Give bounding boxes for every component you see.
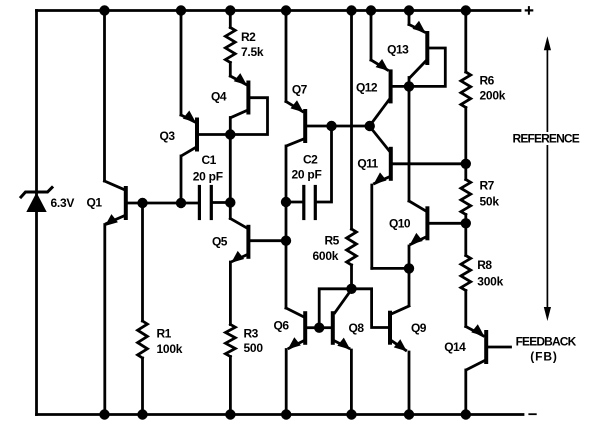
wire R5 bottom	[350, 265, 353, 289]
wire Q1 base node	[128, 202, 198, 205]
label R3 value	[244, 327, 264, 356]
label Q4	[211, 90, 227, 104]
wire Q1 collector	[105, 11, 125, 190]
wire Q11 emitter	[372, 172, 390, 268]
wire C2 right	[317, 126, 332, 202]
wire Q10 base	[429, 222, 465, 225]
wire Q10 collector	[409, 86, 425, 210]
label Q9	[411, 321, 427, 335]
wire R3 bottom	[229, 357, 232, 415]
node Q6 emitter ground	[281, 409, 291, 419]
resistor R3	[226, 325, 236, 357]
node Q5 base junction	[281, 236, 291, 246]
node R1 ground	[137, 409, 147, 419]
label FB	[530, 350, 558, 364]
wire R2 top	[229, 11, 232, 28]
label Q14	[444, 340, 466, 354]
wire C1 right	[213, 201, 230, 204]
wire Q3 collector	[181, 148, 196, 204]
transistor Q10	[425, 208, 429, 238]
svg-text:C1: C1	[202, 153, 217, 167]
wire Q6 emitter	[286, 337, 304, 414]
wire R7-R8	[464, 215, 467, 256]
label R8 value	[477, 258, 503, 288]
wire Q7 emitter	[286, 11, 303, 112]
svg-text:500: 500	[244, 341, 264, 355]
svg-text:C2: C2	[303, 153, 318, 167]
svg-text:(FB): (FB)	[530, 350, 558, 364]
svg-text:R1: R1	[157, 327, 172, 341]
label Q7	[292, 83, 308, 97]
resistor R7	[461, 180, 471, 215]
svg-text:Q1: Q1	[87, 196, 103, 210]
label Q1	[87, 196, 103, 210]
wire R1 top	[141, 203, 144, 321]
label Q5	[212, 235, 228, 249]
wire Q4 base loop	[230, 98, 267, 135]
wire Q9 emitter	[392, 339, 410, 414]
transistor Q8	[331, 313, 335, 343]
wire R5 to Q9 base	[352, 289, 389, 328]
node + terminal	[525, 6, 534, 15]
node Q1 collector supply	[99, 5, 109, 15]
node R5-Q8 junction	[346, 284, 356, 294]
resistor R6	[461, 72, 471, 108]
wire Q3 emitter	[181, 11, 195, 123]
svg-text:R6: R6	[480, 73, 495, 87]
node R2 supply	[225, 5, 235, 15]
transistor Q4	[234, 73, 249, 112]
wire Q14 emitter	[466, 327, 484, 336]
node Q10 emitter junction	[404, 263, 414, 273]
wire Q5 collector	[230, 203, 246, 228]
wire Q4 emitter	[230, 63, 246, 85]
transistor Q3	[183, 111, 197, 150]
node R6 supply	[461, 5, 471, 15]
svg-text:Q10: Q10	[389, 216, 411, 230]
wire R6-R7	[464, 108, 467, 180]
wire Q5 base	[250, 239, 286, 242]
wire Q5 base to Q6	[286, 202, 303, 317]
svg-text:7.5k: 7.5k	[241, 45, 264, 59]
svg-text:20 pF: 20 pF	[193, 169, 223, 183]
wire bottom supply rail	[37, 413, 524, 416]
transistor Q14	[471, 324, 486, 362]
label R5 value	[313, 234, 340, 263]
resistor R5	[347, 229, 357, 265]
wire R1 bottom	[141, 358, 144, 415]
wire Q13 emitter	[409, 11, 425, 33]
svg-text:Q14: Q14	[444, 340, 466, 354]
node R6-R7 junction	[461, 159, 471, 169]
transistor Q5	[246, 227, 250, 257]
wire Q13 collector	[409, 61, 426, 86]
transistor Q12	[376, 59, 391, 101]
label FEEDBACK	[516, 334, 577, 348]
label R1 value	[157, 327, 183, 357]
svg-text:Q6: Q6	[274, 319, 290, 333]
label R2 value	[241, 30, 264, 59]
wire Q12 base	[393, 85, 409, 88]
svg-text:Q8: Q8	[349, 321, 365, 335]
label REFERENCE	[512, 132, 580, 146]
svg-text:200k: 200k	[480, 89, 506, 103]
wire R8 bottom	[464, 291, 467, 327]
node Q13 emitter supply	[404, 5, 414, 15]
wire Q7 base	[307, 125, 370, 128]
wire Q14 base feedback	[488, 346, 510, 349]
node Q14 collector ground	[461, 409, 471, 419]
label Q8	[349, 321, 365, 335]
wire Q11 collector	[371, 128, 390, 151]
wire Q12 emitter	[371, 11, 388, 71]
wire Q8 emitter	[334, 338, 351, 415]
svg-text:REFERENCE: REFERENCE	[513, 132, 580, 146]
label C2 value	[292, 153, 322, 182]
label R7 value	[480, 179, 500, 209]
wire Q12 collector	[371, 100, 389, 125]
label R6 value	[480, 73, 506, 102]
transistor Q9	[388, 313, 392, 343]
wire Q7 collector	[286, 139, 304, 202]
wire Q6 base	[307, 326, 319, 329]
node Q9 emitter ground	[404, 409, 414, 419]
wire Q3 base	[199, 133, 230, 136]
reference range arrow	[544, 36, 551, 321]
svg-text:FEEDBACK: FEEDBACK	[516, 334, 577, 348]
wire top supply rail	[37, 9, 521, 12]
wire Q9 collector	[392, 268, 409, 313]
wire Q10 emitter	[409, 233, 426, 269]
svg-text:Q9: Q9	[411, 321, 427, 335]
wire R6 top	[464, 11, 467, 73]
label Q6	[274, 319, 290, 333]
wire left rail	[35, 11, 38, 415]
svg-text:R7: R7	[480, 179, 495, 193]
label Q3	[160, 129, 176, 143]
wire Q11 emitter to Q10	[372, 267, 409, 270]
capacitor C1	[199, 187, 211, 219]
svg-text:Q4: Q4	[211, 90, 227, 104]
wire Q1 emitter	[105, 214, 124, 414]
svg-text:R3: R3	[244, 327, 259, 341]
node Q6-Q8 base junction	[314, 323, 324, 333]
zener diode D1 6.3V	[21, 188, 52, 213]
node C2 left junction	[281, 197, 291, 207]
node Q8 emitter ground	[346, 409, 356, 419]
wire Q4 collector	[230, 111, 247, 135]
svg-text:100k: 100k	[157, 342, 183, 356]
svg-text:Q13: Q13	[387, 42, 409, 56]
svg-text:50k: 50k	[480, 195, 500, 209]
node R3 ground	[225, 409, 235, 419]
node Q7 emitter supply	[281, 5, 291, 15]
node zener-R1 junction	[137, 198, 147, 208]
svg-text:R2: R2	[241, 30, 256, 44]
capacitor C2	[304, 187, 316, 219]
wire Q14 collector	[466, 361, 485, 415]
label Q12	[356, 81, 378, 95]
node R5 supply	[346, 5, 356, 15]
label Q10	[389, 216, 411, 230]
svg-text:Q5: Q5	[212, 235, 228, 249]
node - terminal	[528, 413, 536, 415]
transistor Q11	[389, 149, 393, 179]
node Q12 emitter supply	[366, 5, 376, 15]
label Q11	[357, 157, 378, 171]
wire R5 top	[350, 11, 353, 230]
resistor R8	[461, 256, 471, 291]
transistor Q1	[124, 188, 128, 218]
wire Q13 base loop	[409, 48, 445, 86]
node Q1 emitter ground	[99, 409, 109, 419]
svg-text:20 pF: 20 pF	[292, 167, 322, 181]
wire Q8 collector	[335, 290, 352, 313]
svg-text:R5: R5	[325, 234, 340, 248]
node Q3 emitter supply	[176, 5, 186, 15]
wire Q11 base	[393, 162, 466, 165]
label Q13	[387, 42, 409, 56]
node C2-Q7 base junction	[326, 121, 336, 131]
node Q3 collector junction	[176, 198, 186, 208]
wire Q8 base	[319, 326, 331, 329]
node Q7 base-Q12 junction	[365, 121, 375, 131]
wire junction down	[229, 135, 232, 203]
label 6.3V	[51, 196, 75, 210]
node Q3-Q4 junction	[225, 129, 235, 139]
transistor Q13	[413, 21, 428, 63]
node C1-Q5 junction	[225, 197, 235, 207]
label C1 value	[193, 153, 223, 183]
svg-text:R8: R8	[477, 258, 492, 272]
wire R5 to bases	[319, 289, 351, 328]
svg-text:600k: 600k	[313, 249, 339, 263]
svg-text:6.3V: 6.3V	[51, 196, 75, 210]
wire C2 left	[286, 201, 302, 204]
transistor Q7	[291, 100, 306, 141]
transistor Q6	[303, 313, 307, 343]
svg-text:300k: 300k	[477, 274, 503, 288]
resistor R1	[138, 321, 148, 358]
svg-text:Q12: Q12	[356, 81, 378, 95]
wire Q5 emitter	[230, 251, 246, 325]
svg-text:Q11: Q11	[357, 157, 378, 171]
resistor R2	[225, 28, 235, 63]
svg-text:Q7: Q7	[292, 83, 308, 97]
svg-text:Q3: Q3	[160, 129, 176, 143]
node R7-R8 junction	[461, 218, 471, 228]
node Q12-Q13 junction	[404, 81, 414, 91]
